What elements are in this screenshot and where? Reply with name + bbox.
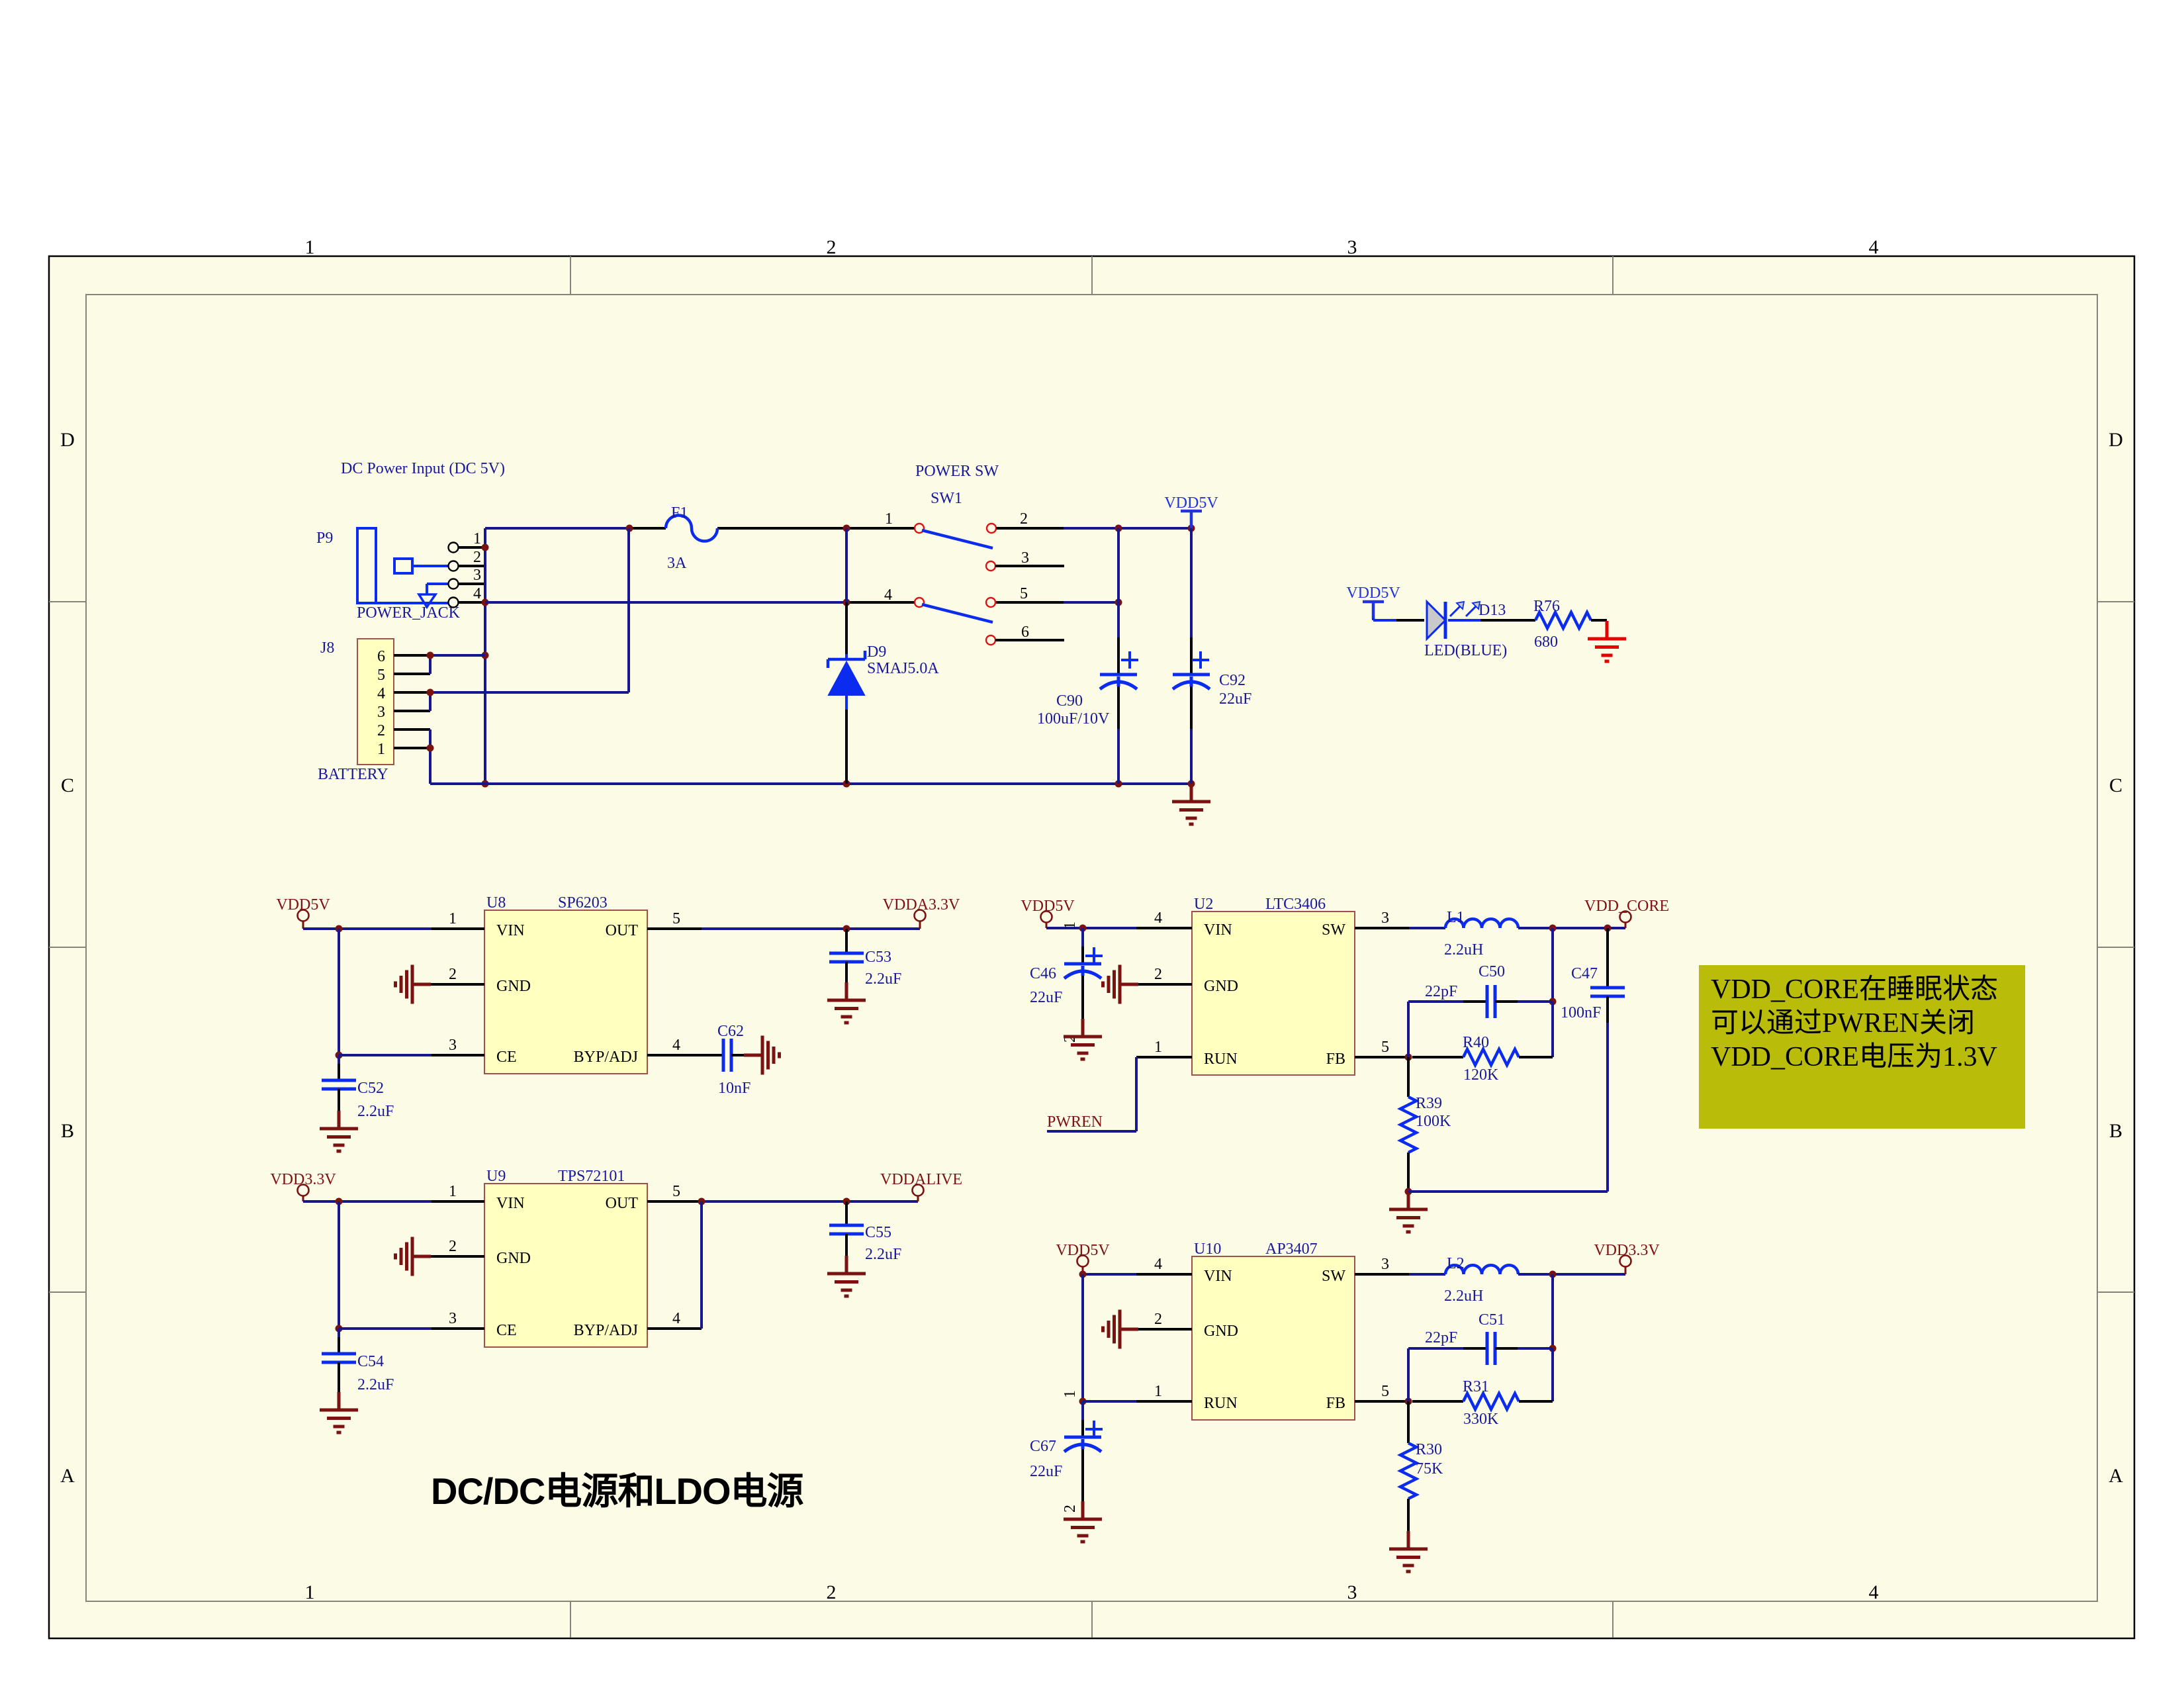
U9 pin stubs and numbers [431,1183,702,1329]
svg-text:5: 5 [672,1183,680,1200]
ground at U10 GND pin [1103,1310,1139,1349]
power symbol VDD5V (LED branch) [1346,585,1400,619]
J8 tie wires and junctions [427,652,629,784]
svg-text:C50: C50 [1479,963,1505,980]
inductor L2 2.2uH [1409,1255,1518,1305]
svg-text:5: 5 [377,667,385,684]
svg-text:3: 3 [1381,910,1389,927]
svg-text:1: 1 [1154,1039,1162,1056]
junction on rail 2 at D9 [843,599,850,606]
svg-text:VIN: VIN [1204,921,1232,939]
svg-text:2: 2 [827,1581,837,1603]
svg-text:75K: 75K [1416,1460,1443,1477]
capacitor C52 2.2uF [322,1055,394,1120]
svg-text:4: 4 [672,1037,680,1054]
wire: U9 BYP/ADJ tie to OUT [700,1201,703,1329]
svg-text:AP3407: AP3407 [1265,1241,1318,1258]
junction at U10 FB node [1405,1398,1412,1405]
wire: U9 CE tie to VIN [336,1201,432,1333]
svg-text:22uF: 22uF [1030,989,1062,1006]
svg-text:U9: U9 [486,1168,506,1185]
resistor R39 100K [1400,1057,1451,1192]
capacitor C90 100uF/10V [1037,528,1138,784]
note box: VDD_CORE sleep note [1699,965,2025,1129]
svg-text:4: 4 [672,1310,680,1327]
svg-text:可以通过PWREN关闭: 可以通过PWREN关闭 [1711,1008,1975,1039]
capacitor C46 22uF [1030,921,1103,1043]
svg-text:4: 4 [1154,1256,1162,1273]
wire: VDD5V to LED [1373,618,1424,620]
svg-text:VDD5V: VDD5V [1021,898,1075,915]
svg-text:4: 4 [1869,236,1879,258]
net label PWREN and wire to U2 RUN [1047,1057,1136,1131]
svg-text:1: 1 [473,530,481,547]
svg-text:3: 3 [377,704,385,721]
resistor R40 120K [1412,1034,1553,1084]
svg-text:1: 1 [449,1183,457,1200]
svg-text:C92: C92 [1219,672,1246,689]
ground at R39 [1389,1192,1428,1232]
wire: switch output to VDD5V node [1064,525,1195,606]
svg-text:R40: R40 [1463,1034,1489,1051]
svg-text:D9: D9 [867,643,886,661]
svg-text:VIN: VIN [496,1195,525,1212]
capacitor C47 100nF [1561,928,1625,1023]
resistor R76 680 [1533,598,1591,651]
wire: U10 RUN tie to VIN via C67 node [1079,1274,1137,1405]
svg-text:C67: C67 [1030,1438,1056,1455]
wire: feedback branch vertical (SW node side) [1549,928,1557,1057]
svg-text:POWER_JACK: POWER_JACK [357,604,461,622]
svg-text:OUT: OUT [606,922,639,939]
svg-text:4: 4 [884,586,892,604]
junction dots on P9 bus [482,544,489,788]
wire: U10 feedback branch vertical [1549,1274,1557,1401]
svg-text:VDD5V: VDD5V [1164,494,1218,512]
svg-text:D13: D13 [1479,602,1506,619]
regulator U10 AP3407 [1192,1241,1355,1420]
wire: VDD3.3V to U9 VIN [303,1198,432,1205]
svg-text:BYP/ADJ: BYP/ADJ [574,1049,638,1066]
svg-text:LED(BLUE): LED(BLUE) [1424,642,1507,659]
wire: bottom return rail [430,782,1191,785]
svg-text:GND: GND [1204,978,1238,995]
svg-text:1: 1 [885,510,893,528]
power port VDD5V at U8 [276,896,330,929]
svg-text:DC Power Input (DC 5V): DC Power Input (DC 5V) [341,460,505,477]
resistor R30 75K [1400,1401,1443,1531]
svg-text:C: C [2109,774,2122,796]
wire: VDD5V to U10 VIN [1079,1271,1137,1278]
wire: D9 tie between rails [845,528,848,602]
LED D13 LED(BLUE) [1424,602,1507,659]
diode D9 SMAJ5.0A (TVS) [828,602,939,784]
switch SW1 POWER SW (DPDT) [884,463,1064,645]
svg-text:2: 2 [1154,1311,1162,1328]
power port VDD3.3V at U10 output [1594,1242,1660,1274]
ground at C52 [320,1111,358,1151]
ground at C92 [1172,784,1210,824]
power port VDD5V at U2 [1021,898,1075,928]
svg-text:3A: 3A [667,555,687,572]
svg-text:100nF: 100nF [1561,1004,1601,1021]
svg-text:VDDALIVE: VDDALIVE [880,1171,962,1188]
svg-text:1: 1 [305,236,315,258]
svg-text:U2: U2 [1194,896,1213,913]
svg-text:22pF: 22pF [1425,1329,1457,1346]
svg-text:2.2uF: 2.2uF [865,970,901,988]
svg-text:R30: R30 [1416,1441,1442,1458]
svg-text:SW: SW [1322,921,1345,939]
ground at U9 GND pin [396,1237,432,1276]
svg-text:C55: C55 [865,1224,891,1241]
wire: top +5V rail to fuse and switch [485,527,915,530]
capacitor C55 2.2uF [829,1201,901,1263]
svg-text:FB: FB [1326,1395,1345,1412]
ground at U2 GND pin [1103,965,1139,1004]
svg-text:VDD_CORE: VDD_CORE [1584,898,1669,915]
svg-text:22pF: 22pF [1425,983,1457,1000]
svg-text:4: 4 [1869,1581,1879,1603]
svg-text:10nF: 10nF [718,1080,751,1097]
svg-text:3: 3 [1347,236,1357,258]
power port VDD_CORE [1584,898,1669,928]
svg-text:J8: J8 [320,639,334,657]
capacitor C62 10nF [717,1023,754,1097]
svg-text:1: 1 [305,1581,315,1603]
svg-text:6: 6 [1021,624,1029,641]
wire: L2 to VDD3.3V [1518,1271,1625,1278]
power port VDDA3.3V [883,896,960,929]
junction dots on bottom rail [843,780,1195,788]
wire: VDD5V to U8 VIN [303,925,432,933]
svg-text:2.2uF: 2.2uF [357,1376,394,1393]
svg-text:B: B [2109,1120,2122,1142]
power port VDD3.3V at U9 [270,1171,336,1201]
svg-text:4: 4 [377,685,385,702]
svg-text:FB: FB [1326,1051,1345,1068]
svg-text:2: 2 [449,966,457,983]
svg-text:3: 3 [1347,1581,1357,1603]
svg-text:B: B [61,1120,74,1142]
svg-text:LTC3406: LTC3406 [1265,896,1326,913]
ground at C54 [320,1392,358,1432]
ground at C55 [827,1256,866,1296]
connector P9 POWER_JACK [316,528,461,622]
U10 pin stubs and numbers [1136,1256,1409,1401]
svg-text:VDD_CORE在睡眠状态: VDD_CORE在睡眠状态 [1711,974,1998,1005]
ground (red) at R76 [1588,621,1626,661]
svg-text:VDD5V: VDD5V [1346,585,1400,602]
svg-text:U10: U10 [1194,1241,1221,1258]
svg-text:SP6203: SP6203 [558,894,608,912]
svg-text:GND: GND [1204,1323,1238,1340]
svg-text:R39: R39 [1416,1095,1442,1112]
svg-text:2: 2 [1154,966,1162,983]
svg-text:GND: GND [496,978,531,995]
P9 pin circles and stubs (pins 1-4) [449,530,486,608]
power symbol VDD5V (rail) [1164,494,1218,528]
svg-text:P9: P9 [316,530,333,547]
wire: L1 to VDD_CORE [1518,925,1625,932]
svg-text:RUN: RUN [1204,1051,1238,1068]
ground at C53 [827,982,866,1023]
ground at R30 [1389,1531,1428,1571]
svg-text:D: D [2109,429,2123,451]
svg-text:4: 4 [1154,910,1162,927]
junction: fuse input / battery feed [626,525,850,532]
svg-text:A: A [2109,1465,2123,1487]
svg-text:U8: U8 [486,894,506,912]
svg-text:VDDA3.3V: VDDA3.3V [883,896,960,914]
svg-text:L2: L2 [1447,1255,1465,1272]
svg-text:VDD5V: VDD5V [276,896,330,914]
svg-text:VIN: VIN [1204,1268,1232,1285]
regulator U8 SP6203 [484,894,647,1074]
ground at C46 [1064,1019,1102,1059]
svg-text:VDD3.3V: VDD3.3V [270,1171,336,1188]
svg-text:C46: C46 [1030,965,1056,982]
svg-text:R76: R76 [1533,598,1560,615]
svg-text:3: 3 [1381,1256,1389,1273]
svg-text:680: 680 [1534,633,1558,651]
svg-text:2: 2 [827,236,837,258]
svg-text:1: 1 [449,910,457,927]
svg-text:F1: F1 [671,504,688,522]
svg-text:VDD_CORE电压为1.3V: VDD_CORE电压为1.3V [1711,1042,1997,1072]
svg-text:3: 3 [449,1310,457,1327]
svg-text:3: 3 [1021,549,1029,567]
svg-text:6: 6 [377,648,385,665]
svg-text:2: 2 [1062,1505,1079,1513]
svg-text:120K: 120K [1463,1066,1499,1084]
svg-text:VDD3.3V: VDD3.3V [1594,1242,1660,1259]
svg-text:PWREN: PWREN [1047,1113,1103,1131]
wire: R76 to ground [1591,619,1607,622]
svg-text:5: 5 [1381,1383,1389,1400]
U8 pin stubs and numbers [431,910,723,1055]
capacitor C67 22uF [1030,1390,1103,1513]
svg-text:22uF: 22uF [1030,1463,1062,1480]
svg-text:330K: 330K [1463,1411,1499,1428]
svg-text:2.2uH: 2.2uH [1444,941,1483,959]
svg-text:L1: L1 [1447,909,1465,926]
wire: P9 bus vertical [484,528,486,784]
svg-text:22uF: 22uF [1219,690,1251,708]
svg-text:SW: SW [1322,1268,1345,1285]
power port VDDALIVE [880,1171,962,1201]
junction at U2 FB node [1405,1054,1412,1061]
svg-text:1: 1 [1062,1390,1079,1398]
svg-text:2.2uF: 2.2uF [357,1103,394,1120]
svg-text:D: D [60,429,75,451]
connector J8 BATTERY [318,639,430,783]
svg-text:100K: 100K [1416,1113,1451,1130]
svg-text:2.2uH: 2.2uH [1444,1288,1483,1305]
inductor L1 2.2uH [1409,909,1518,959]
U2 pin stubs and numbers [1136,910,1409,1057]
regulator U2 LTC3406 [1192,896,1355,1075]
svg-text:2: 2 [449,1238,457,1255]
svg-text:100uF/10V: 100uF/10V [1037,710,1110,727]
svg-text:C90: C90 [1056,692,1083,710]
svg-text:C53: C53 [865,949,891,966]
svg-text:BATTERY: BATTERY [318,766,388,783]
svg-text:2.2uF: 2.2uF [865,1246,901,1263]
svg-text:2: 2 [377,722,385,739]
svg-text:5: 5 [672,910,680,927]
svg-text:C62: C62 [717,1023,744,1040]
power port VDD5V at U10 [1056,1242,1110,1274]
svg-text:CE: CE [496,1322,517,1339]
capacitor C51 22pF [1408,1311,1553,1401]
capacitor C54 2.2uF [322,1329,394,1393]
wire: VDD5V to U2 VIN [1046,925,1136,932]
svg-text:2: 2 [473,549,481,566]
junction at R39 bottom [1405,1188,1412,1196]
svg-text:GND: GND [496,1250,531,1267]
svg-text:R31: R31 [1463,1378,1489,1395]
wire: battery positive to fuse input (vertical x=950) [627,528,630,692]
svg-text:VIN: VIN [496,922,525,939]
svg-text:1: 1 [1062,921,1079,929]
svg-text:BYP/ADJ: BYP/ADJ [574,1322,638,1339]
capacitor C92 22uF [1173,528,1251,784]
svg-text:C47: C47 [1571,965,1598,982]
wire: second rail (switch pole 2) [485,601,915,604]
ground at U8 GND pin [396,965,432,1004]
svg-text:TPS72101: TPS72101 [558,1168,625,1185]
svg-text:5: 5 [1020,585,1028,602]
wire: LED to R76 [1448,619,1535,622]
svg-text:OUT: OUT [606,1195,639,1212]
wire: U8 OUT to VDDA3.3V [702,925,920,933]
ground at C67 [1064,1501,1102,1542]
svg-text:1: 1 [377,741,385,758]
svg-text:VDD5V: VDD5V [1056,1242,1110,1259]
svg-text:DC/DC电源和LDO电源: DC/DC电源和LDO电源 [431,1470,804,1512]
svg-text:3: 3 [473,567,481,584]
svg-text:4: 4 [473,585,481,602]
svg-text:C: C [61,774,74,796]
svg-text:C51: C51 [1479,1311,1505,1329]
ground at C62 (sideways) [744,1036,780,1075]
svg-text:1: 1 [1154,1383,1162,1400]
svg-text:3: 3 [449,1037,457,1054]
fuse F1 3A [666,504,717,572]
svg-text:POWER SW: POWER SW [915,463,999,480]
svg-text:5: 5 [1381,1039,1389,1056]
capacitor C50 22pF [1408,963,1553,1057]
svg-text:CE: CE [496,1049,517,1066]
wire: U9 OUT to VDDALIVE [698,1198,919,1205]
svg-text:RUN: RUN [1204,1395,1238,1412]
resistor R31 330K [1412,1378,1553,1428]
svg-text:2: 2 [1020,510,1028,528]
capacitor C53 2.2uF [829,929,901,988]
wire: C47 bottom to R39 ground node [1408,1023,1608,1192]
svg-text:C54: C54 [357,1353,384,1370]
svg-text:SMAJ5.0A: SMAJ5.0A [867,660,939,677]
regulator U9 TPS72101 [484,1168,647,1347]
wire: U8 CE tie to VIN [336,929,432,1059]
svg-text:SW1: SW1 [931,490,962,507]
svg-text:A: A [60,1465,75,1487]
svg-text:C52: C52 [357,1080,384,1097]
